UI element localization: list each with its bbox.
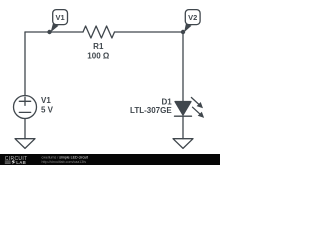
voltage source V1 bbox=[14, 96, 37, 119]
wire left vertical (V1+ to source) bbox=[24, 32, 26, 96]
svg-text:R1: R1 bbox=[93, 42, 104, 51]
wire top-left horizontal (node V1) bbox=[25, 31, 83, 33]
wire right vertical (V2 to LED anode) bbox=[182, 32, 184, 102]
svg-text:V2: V2 bbox=[188, 13, 197, 22]
resistor R1 bbox=[83, 26, 115, 38]
wire LED cathode to right ground bbox=[182, 116, 184, 139]
svg-text:V1: V1 bbox=[56, 13, 65, 22]
svg-text:http://circuitlab.com/caa13fs: http://circuitlab.com/caa13fs bbox=[42, 160, 87, 164]
LED D1 emission arrows bbox=[191, 98, 204, 118]
ground (left) bbox=[15, 139, 35, 149]
node label V1 (callout) bbox=[47, 10, 67, 35]
svg-text:LTL-307GE: LTL-307GE bbox=[130, 106, 172, 115]
svg-text:LAB: LAB bbox=[16, 160, 26, 165]
CircuitLab logo bbox=[5, 156, 28, 165]
node label V2 (callout) bbox=[181, 10, 200, 35]
LED D1 bbox=[175, 102, 192, 117]
wire source bottom to left ground bbox=[24, 119, 26, 139]
ground (right) bbox=[173, 139, 193, 149]
footer bar bbox=[0, 154, 220, 165]
wire top-right horizontal (node V2) bbox=[115, 31, 184, 33]
svg-text:5 V: 5 V bbox=[41, 106, 54, 115]
svg-text:V1: V1 bbox=[41, 96, 51, 105]
svg-text:100 Ω: 100 Ω bbox=[87, 52, 110, 61]
